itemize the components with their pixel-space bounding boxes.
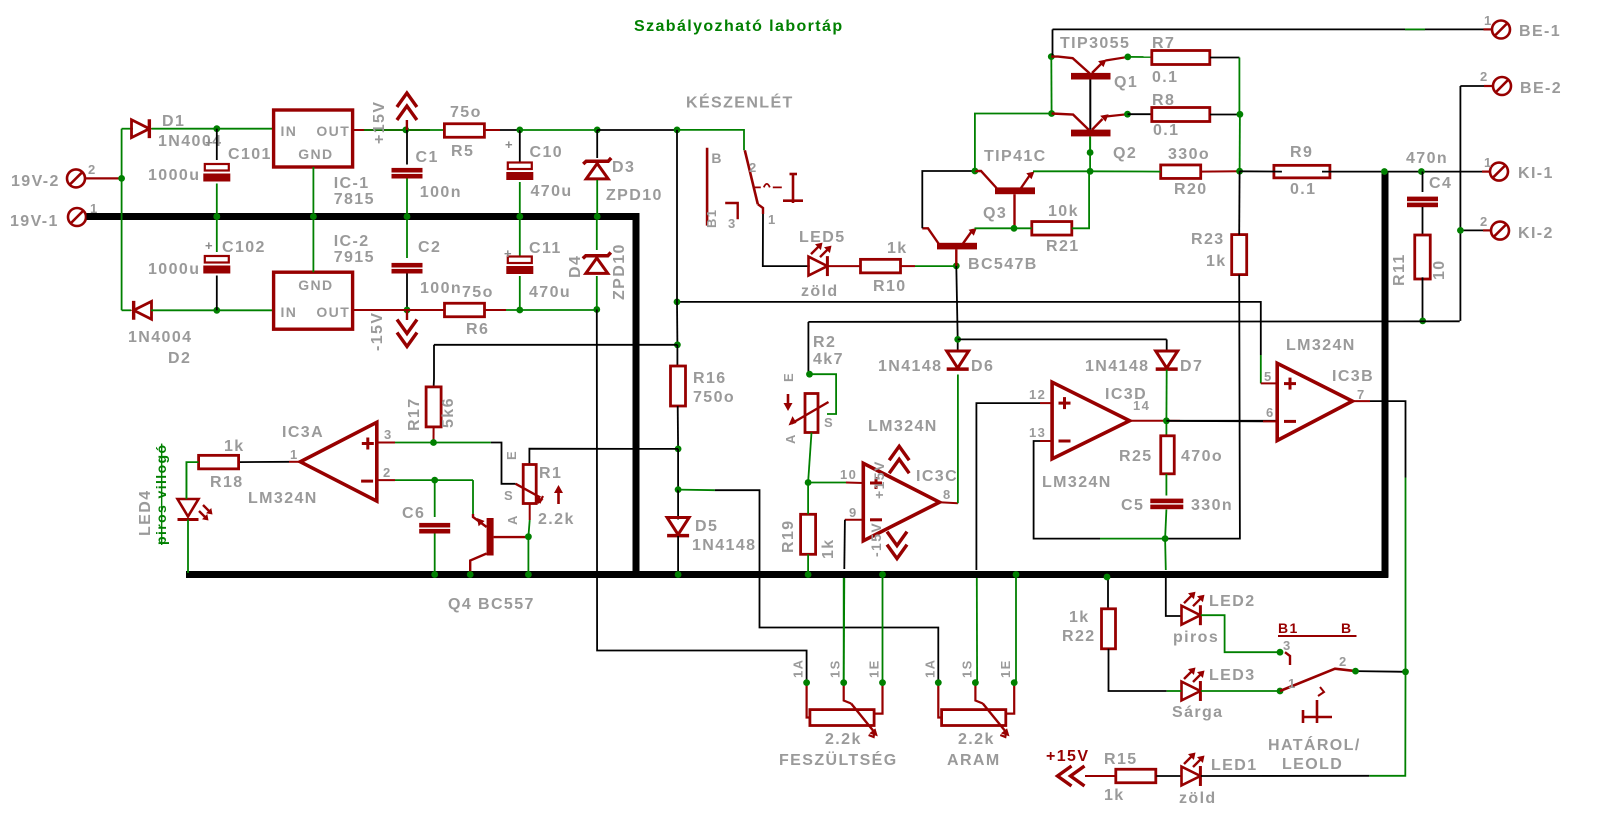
svg-text:330n: 330n [1191,497,1233,514]
junction R20-R9 [1236,168,1243,175]
label C6 [402,505,425,522]
wire R2 bottom [808,433,811,483]
svg-text:zöld: zöld [801,283,839,300]
transistor Q5 BC547B bar [937,243,977,250]
svg-text:C2: C2 [418,239,441,256]
wire D5 bottom lead [677,536,679,575]
label R25 [1119,448,1223,465]
wire LED5 to R10 [828,265,860,267]
junction R9 thick bus [1381,168,1388,175]
svg-text:A: A [783,433,798,444]
wire IC3D pin12 [976,403,1052,682]
terminal KI-1 [1482,163,1508,181]
IC3C minus [870,518,882,521]
junction C5 bottom [1162,535,1169,542]
svg-text:A: A [505,514,520,525]
wire C5 node to LED2 [1165,539,1181,616]
svg-text:IC3B: IC3B [1332,368,1374,385]
svg-text:C11: C11 [529,240,562,257]
svg-text:9: 9 [849,505,858,520]
svg-text:BC547B: BC547B [968,256,1038,273]
svg-text:13: 13 [1029,425,1046,440]
LED LED5 [809,243,832,276]
svg-text:1E: 1E [867,659,882,678]
transistor Q1 emitter [1092,57,1128,73]
resistor R25 [1161,436,1175,474]
wire D3 bottom lead [596,180,598,217]
svg-text:470u: 470u [529,284,571,301]
wire R6 left [407,309,445,311]
capacitor C4 [1407,197,1438,208]
wire C101 top lead [216,129,218,160]
wire R7 right [1210,58,1239,115]
wire R1 bottom [528,504,529,537]
wire C11 bottom lead [519,276,521,310]
svg-text:1k: 1k [1069,609,1090,626]
potentiometer R2 [789,394,829,433]
transistor Q4 collector [470,554,486,575]
svg-text:R20: R20 [1174,181,1208,198]
wire D7 bottom [1165,370,1167,421]
label IC3C [868,418,958,485]
wire D1 cathode [152,128,274,130]
svg-text:330o: 330o [1168,146,1210,163]
wire IC2 OUT [353,309,407,311]
svg-text:0.1: 0.1 [1153,122,1179,139]
wire R8 junction down [1239,114,1241,171]
wire switch S1 to LED5 [763,214,810,266]
label BE-2 [1480,69,1562,97]
transistor Q3 emitter [1021,172,1035,189]
wire R17 link [434,344,677,346]
wire R17 bottom [433,427,435,443]
junction standby tap [674,299,681,306]
label R10 [873,240,908,295]
LED LED1 [1182,753,1205,786]
svg-text:-15V: -15V [369,312,386,351]
capacitor C102 [203,256,230,274]
svg-text:R8: R8 [1152,92,1175,109]
transistor Q2 emitter [1092,114,1128,130]
diode D5 [667,518,689,536]
potentiometer R1 [516,465,544,505]
junction standby node [674,126,681,133]
svg-text:TIP41C: TIP41C [984,148,1047,165]
wire IC3C out [940,375,958,504]
label R16 [693,370,735,406]
junction FESZ 1E bus [879,571,886,578]
resistor R21 [1032,222,1072,236]
svg-text:1000u: 1000u [148,261,200,278]
wire R25-C5 [1165,474,1167,496]
svg-text:10: 10 [1431,259,1448,280]
wire C10-D3 segment [520,129,597,131]
svg-text:LED3: LED3 [1209,667,1256,684]
label switch S1 B [704,150,723,228]
wire BE-2 KI-2 vertical [1459,86,1461,321]
resistor R18 [199,455,239,469]
svg-text:B: B [1341,620,1353,636]
wire IC3C pin9 [844,520,864,683]
junction R19 bus [805,571,812,578]
svg-text:19V-2: 19V-2 [11,173,60,190]
zener diode D3 [583,158,611,179]
wire C6 top [434,480,436,517]
wire R16-D5 link [677,449,679,490]
svg-text:LED2: LED2 [1209,593,1256,610]
svg-text:C6: C6 [402,505,425,522]
transistor Q4 base lead [494,536,529,538]
wire R22 top [1107,577,1109,610]
resistor R22 [1102,609,1116,649]
resistor R11 [1415,235,1431,279]
title text [634,18,844,35]
svg-text:piros villogó: piros villogó [153,444,169,545]
label FESZULTSEG [779,731,898,769]
wire R5 right [484,129,519,131]
wire R19 bottom [807,554,809,574]
wire R21 right [1072,171,1089,228]
svg-text:2: 2 [1339,654,1348,669]
wire D3-standby segment [597,129,677,131]
transistor Q1 collector [1051,57,1090,74]
junction ARAM 1E bus [1013,571,1020,578]
wire IC3B out [1352,401,1405,672]
wire D1 anode [122,128,133,130]
svg-text:S: S [824,415,834,430]
svg-text:D4: D4 [567,255,584,278]
svg-text:+15V: +15V [1046,748,1089,765]
potentiometer FESZULTSEG [791,659,886,737]
label C102 [148,238,266,278]
label C5 [1121,497,1233,514]
wire IC3A out [239,461,300,463]
wire pin3 to R1 wiper [491,443,516,484]
switch S1 flag symbol [783,174,803,203]
svg-text:HATÁROL/: HATÁROL/ [1268,735,1361,754]
wire C11 top lead [519,220,521,259]
label LED4 [137,444,169,545]
wire R11 bottom [1422,277,1424,321]
wire R20 left [1090,170,1161,172]
svg-text:R21: R21 [1046,238,1080,255]
svg-text:R6: R6 [466,321,489,338]
svg-text:750o: 750o [693,389,735,406]
label IC3C V+ [871,460,887,499]
svg-text:LED1: LED1 [1211,757,1258,774]
svg-text:5: 5 [1264,369,1273,384]
label -15V [369,312,386,351]
svg-text:IC-1: IC-1 [334,175,370,192]
junction +15V node [402,126,409,133]
regulator IC2 box [274,272,353,329]
switch S1 arm [745,150,758,204]
IC2 pin labels [281,277,351,320]
wire IC3B pin5 [1261,382,1277,384]
svg-text:+: + [205,238,214,253]
svg-text:1S: 1S [959,659,974,678]
wire C102 bottom lead [216,276,218,311]
diode D7 [1156,351,1178,369]
svg-text:E: E [781,372,796,382]
wire D3 top lead [596,130,598,158]
svg-text:BE-2: BE-2 [1520,80,1562,97]
svg-text:3: 3 [384,427,393,442]
label R21 [1046,203,1080,255]
svg-text:piros: piros [1173,629,1219,646]
diode D2 [134,301,152,320]
power +15V arrow [397,93,417,130]
label D1 [158,113,222,150]
label S2 names [1278,620,1357,636]
svg-text:R19: R19 [780,519,797,553]
capacitor C10 [506,163,533,181]
IC3C V- arrow [887,532,907,559]
wire R8 right [1210,114,1240,116]
junction Q4 collector bus [467,571,474,578]
wire R19 top lead [807,483,809,515]
label C1 [416,149,462,201]
resistor R9 [1274,165,1330,178]
wire C10 bottom lead [519,182,521,217]
wire R9 left [1240,170,1282,172]
svg-text:D6: D6 [971,358,994,375]
wire R18 left [186,462,198,498]
label IC3A [248,424,324,507]
wire standby vertical [676,130,678,345]
transistor BC547B base lead [955,249,957,266]
junction R2 top [806,371,813,378]
junction Q2 collector [1048,110,1055,117]
svg-text:1N4004: 1N4004 [128,329,192,346]
label R5 [450,104,482,160]
transistor Q4 bar [487,518,494,556]
label D7 [1085,358,1203,375]
label R19 [780,519,837,559]
IC3B minus [1284,420,1296,423]
junction pin3-R17 [430,439,437,446]
junction KI-2 [1457,227,1464,234]
wire R16 top lead [676,345,678,366]
wire C2 bottom lead [406,274,408,311]
junction D3 bus [594,213,601,220]
wire D4 bottom lead [596,276,598,310]
svg-text:1A: 1A [791,659,806,678]
resistor R23 [1232,235,1247,275]
svg-text:2.2k: 2.2k [958,731,995,748]
label pin10 [840,467,857,482]
label S2 pin3 [1283,638,1292,653]
label KI-2 [1480,214,1554,242]
svg-text:ZPD10: ZPD10 [606,187,663,204]
junction R1 top tap [675,446,682,453]
IC3A plus [362,438,374,450]
label LED3 [1172,667,1256,721]
wire LED1 cathode [1201,672,1406,776]
transistor Q1 bar [1071,73,1111,80]
wire D5 to ARAM pot [678,490,938,683]
svg-text:R10: R10 [873,278,907,295]
label R15 [1104,751,1138,804]
svg-text:LED5: LED5 [799,229,846,246]
junction pin14 node [1163,417,1170,424]
op-amp IC3D [1052,382,1130,459]
capacitor C11 [506,257,533,275]
svg-text:1k: 1k [224,438,245,455]
wire C1 top lead [406,130,408,165]
junction Q2 emitter [1124,111,1131,118]
op-amp IC3B [1277,363,1352,440]
wire FESZ 1S from pin9 [843,578,845,683]
label R23 [1191,231,1227,270]
R2 trim arrow [784,394,793,411]
wire LED2 cathode [1201,615,1280,652]
label C101 [148,135,272,184]
wire R7 left [1128,56,1152,58]
transistor Q2 bar [1071,130,1111,137]
wire +15V to R15 [1085,775,1115,777]
junction D5 bus [675,571,682,578]
svg-text:10: 10 [840,467,857,482]
wire top rail to BE-1 [1053,28,1484,30]
svg-text:LM324N: LM324N [1286,337,1356,354]
svg-text:Q1: Q1 [1114,74,1138,91]
svg-text:IC-2: IC-2 [334,233,370,250]
switch S1 pin labels [749,160,777,227]
label D5 [692,518,756,554]
svg-text:75o: 75o [450,104,482,121]
svg-text:0.1: 0.1 [1152,69,1178,86]
svg-text:2: 2 [88,162,97,177]
svg-text:Szabályozható labortáp: Szabályozható labortáp [634,18,844,35]
svg-text:LED4: LED4 [137,490,154,537]
label LED2 [1173,593,1256,646]
svg-text:14: 14 [1133,398,1150,413]
svg-text:zöld: zöld [1179,790,1217,807]
junction D5 top [675,486,682,493]
transistor Q3 collector [975,171,997,188]
svg-text:R7: R7 [1152,35,1175,52]
svg-text:Q2: Q2 [1113,145,1137,162]
IC3B pin numbers [1264,369,1366,420]
label C11 [504,240,571,301]
svg-text:R22: R22 [1062,628,1096,645]
junction D6 node [954,336,961,343]
resistor R16 [671,366,686,406]
svg-text:R18: R18 [210,474,244,491]
wire 19V-2 node [121,129,123,311]
wire IC1 GND [312,167,314,213]
svg-text:IN: IN [281,123,298,139]
capacitor C6 [419,523,450,534]
svg-text:5k6: 5k6 [440,397,457,428]
svg-text:470n: 470n [1406,150,1448,167]
junction limit node [1402,668,1409,675]
wire base node up [1089,153,1091,172]
wire R11 rail y321 [808,320,1459,323]
wire Q3 emitter to R20 [1033,170,1090,172]
potentiometer ARAM [922,659,1017,737]
svg-text:Sárga: Sárga [1172,704,1223,721]
svg-text:C1: C1 [416,149,439,166]
junction BC547 base [953,263,960,270]
svg-text:R9: R9 [1290,144,1313,161]
wire D4 top lead [596,220,598,250]
wire C5 bottom [1165,510,1166,539]
wire R22 bottom [1109,649,1182,691]
label R2 [813,334,844,368]
junction Q1 emitter [1124,54,1131,61]
svg-text:470o: 470o [1181,448,1223,465]
svg-text:R1: R1 [539,465,562,482]
wire pin2 to Q4 emitter [472,480,474,514]
svg-text:1k: 1k [820,538,837,559]
junction R1 bus [525,571,532,578]
power -15V arrow [397,310,417,347]
label HATAROL [1268,735,1361,773]
transistor Q4 emitter [473,514,487,527]
LED LED3 [1182,668,1205,701]
label BE-1 [1484,13,1561,40]
wire IC2 GND [312,220,314,272]
svg-text:OUT: OUT [316,304,350,320]
wire C4 top lead [1422,172,1424,193]
resistor R10 [861,259,901,273]
IC3A minus [361,480,373,483]
wire D5 top lead [677,490,679,520]
transistor Q1 base lead [1089,80,1091,130]
svg-text:D5: D5 [695,518,718,535]
svg-text:1: 1 [1484,155,1493,170]
svg-text:+: + [505,137,514,152]
svg-text:C102: C102 [222,239,266,256]
transistor Q3 TIP41C bar [995,187,1035,194]
svg-text:B1: B1 [1278,620,1299,636]
wire C102 top lead [216,219,218,252]
svg-text:Q4: Q4 [448,596,472,613]
junction S2 pin1 [1277,688,1284,695]
junction C6 bus [431,571,438,578]
label KI-1 [1484,155,1554,182]
wire C1 bottom lead [406,179,408,217]
junction IC1 GND bus [310,213,317,220]
wire R20 right [1201,170,1240,172]
label R8 [1152,92,1179,139]
svg-text:FESZÜLTSÉG: FESZÜLTSÉG [779,750,898,769]
svg-text:C4: C4 [1429,175,1452,192]
svg-text:+15V: +15V [371,101,388,144]
transistor BC547B emitter [963,228,977,244]
junction pin2-C6 [431,477,438,484]
label R1 pins [504,450,520,525]
wire top rail corner [1052,29,1054,56]
svg-text:OUT: OUT [316,123,350,139]
LED LED2 [1182,592,1205,625]
junction C10 bus [516,213,523,220]
switch S2 flag symbol [1303,700,1332,723]
wire R25 top [1165,421,1167,436]
R1 trim arrow [554,485,563,504]
svg-text:LM324N: LM324N [868,418,938,435]
wire R6 right [485,309,597,311]
svg-text:D7: D7 [1180,358,1203,375]
svg-text:R23: R23 [1191,231,1225,248]
svg-text:GND: GND [298,277,333,293]
wire D2 cathode side [122,309,131,311]
svg-text:Q3: Q3 [983,205,1007,222]
label IC3D [1042,386,1147,491]
label IC3B [1286,337,1374,385]
